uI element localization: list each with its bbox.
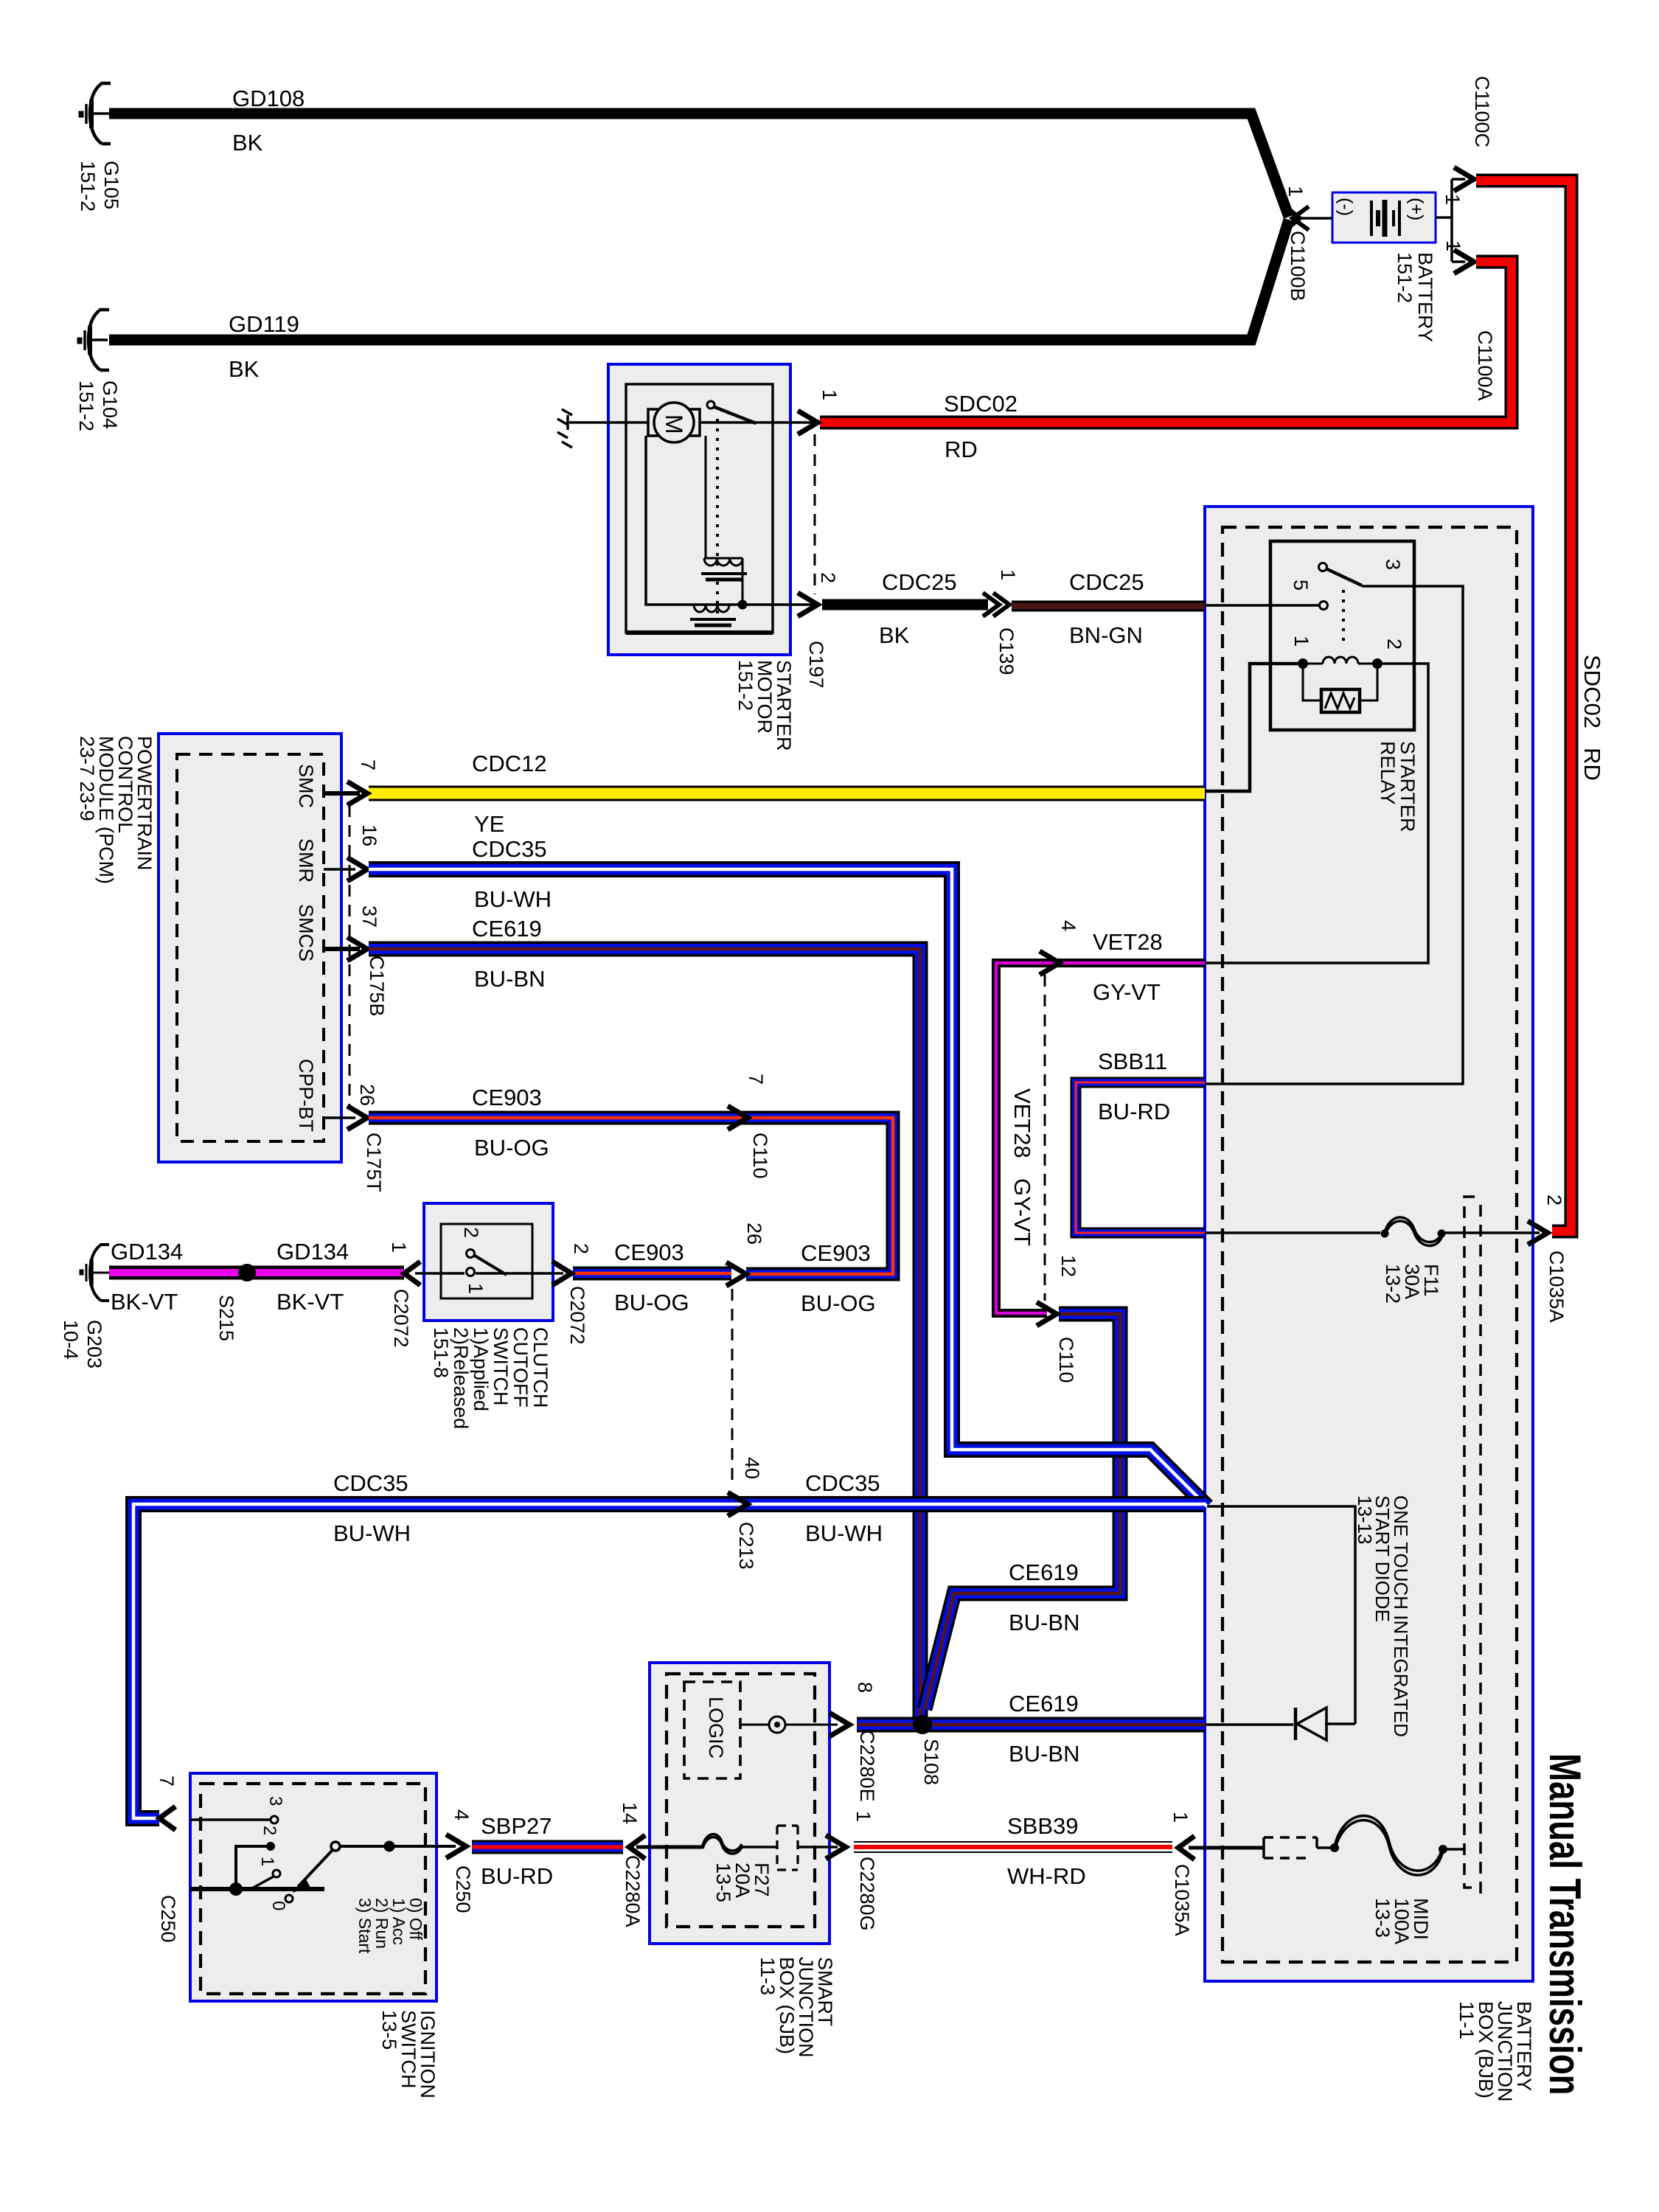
connector C110 dashed line <box>1044 975 1046 1301</box>
svg-text:C139: C139 <box>995 627 1018 675</box>
wire CDC25 BN-GN <box>1012 601 1205 612</box>
svg-text:BU-BN: BU-BN <box>474 966 545 992</box>
connector C1100B arrow <box>1284 205 1332 232</box>
connector C213 dashed line <box>731 1289 734 1488</box>
label CDC25 BN-GN <box>1069 569 1144 648</box>
starter relay pin 5 lead <box>1205 602 1328 610</box>
diode one touch integrated start <box>1295 1708 1326 1740</box>
svg-text:4: 4 <box>1057 920 1079 931</box>
svg-text:S215: S215 <box>215 1295 237 1341</box>
starter relay pin 3 lead to SBB11 <box>1205 586 1463 1084</box>
svg-text:C1035A: C1035A <box>1171 1864 1193 1936</box>
starter relay pin 2 lead to VET28 <box>1205 664 1428 963</box>
svg-text:Manual Transmission: Manual Transmission <box>1540 1753 1588 2096</box>
svg-text:SBB11: SBB11 <box>1098 1048 1167 1074</box>
clutch switch internals <box>415 1250 563 1276</box>
label CE903 BU-OG mid <box>801 1240 876 1316</box>
label C1100B <box>1284 186 1309 302</box>
label smart junction box <box>757 1957 836 2058</box>
svg-text:BK: BK <box>879 622 910 648</box>
connector C2072 pin 1 arrow <box>404 1262 420 1285</box>
svg-text:YE: YE <box>474 811 504 837</box>
svg-text:C250: C250 <box>157 1895 179 1943</box>
svg-text:C2280A: C2280A <box>622 1855 644 1927</box>
svg-text:CLUTCH: CLUTCH <box>529 1327 552 1408</box>
svg-text:BN-GN: BN-GN <box>1069 622 1143 648</box>
connector C197 pin 2 arrow <box>798 593 818 616</box>
svg-text:7: 7 <box>357 759 379 771</box>
wire CE903 BU-OG clutch switch to C213 <box>573 1267 731 1281</box>
svg-text:2)Released: 2)Released <box>450 1327 472 1429</box>
svg-text:2: 2 <box>260 1826 279 1835</box>
svg-text:S108: S108 <box>920 1739 942 1785</box>
starter solenoid switch <box>700 401 813 423</box>
svg-text:(-): (-) <box>1335 198 1356 216</box>
label C2072 pin 1 <box>388 1242 412 1348</box>
starter solenoid pull-in coil <box>701 436 747 609</box>
label battery junction box <box>1455 2001 1535 2102</box>
wire CE903 BU-OG from PCM pin 26 via C110 pin 7 to C213 pin 26 <box>369 1118 893 1274</box>
wire CDC25 BK <box>822 599 988 611</box>
connector C213 pin 40 arrow <box>728 1492 748 1516</box>
wire CE619 BU-BN from PCM pin 37 to splice S108 <box>369 949 920 1725</box>
svg-text:STARTER: STARTER <box>1397 741 1419 832</box>
connector C110 pin 7 arrow <box>728 1106 748 1130</box>
svg-text:16: 16 <box>358 824 380 846</box>
svg-text:G105: G105 <box>100 161 122 209</box>
label C2280A pin 14 <box>619 1802 644 1927</box>
wire SBB39 WH-RD <box>854 1841 1172 1853</box>
svg-text:151-2: 151-2 <box>75 380 97 431</box>
starter relay pin 1 lead from CDC12 <box>1205 664 1298 791</box>
label manual transmission <box>1540 1753 1588 2096</box>
svg-text:BU-OG: BU-OG <box>474 1135 549 1161</box>
svg-text:1: 1 <box>818 389 841 400</box>
label C1035A pin 2 <box>1543 1194 1568 1323</box>
svg-text:1: 1 <box>1442 240 1464 251</box>
starter solenoid dotted link <box>716 419 719 618</box>
svg-text:BU-WH: BU-WH <box>333 1520 411 1546</box>
connector C1100C arrow <box>1454 167 1474 191</box>
svg-text:BU-WH: BU-WH <box>474 886 552 912</box>
starter motor ground <box>557 409 648 448</box>
svg-text:40: 40 <box>741 1457 763 1479</box>
svg-text:BU-BN: BU-BN <box>1009 1741 1079 1767</box>
label CDC12 YE <box>472 751 547 837</box>
svg-text:3) Start: 3) Start <box>355 1898 375 1954</box>
svg-text:2: 2 <box>460 1227 482 1238</box>
starter relay switch <box>1319 563 1363 586</box>
starter relay dotted link <box>1342 590 1345 647</box>
connector C1035A pin 1 arrow <box>1178 1836 1194 1860</box>
svg-text:VET28: VET28 <box>1093 929 1163 955</box>
svg-text:GD134: GD134 <box>111 1239 183 1265</box>
label GD134 BK-VT left <box>111 1239 183 1315</box>
label C213 pin 26 <box>743 1222 765 1245</box>
starter relay box <box>1270 541 1414 730</box>
svg-text:13-3: 13-3 <box>1371 1898 1394 1938</box>
connector C110 pin 4 arrow <box>1040 951 1060 975</box>
label CE903 BU-OG at PCM <box>472 1085 549 1161</box>
svg-text:CE903: CE903 <box>472 1085 542 1110</box>
svg-text:SBP27: SBP27 <box>481 1813 552 1839</box>
svg-text:3: 3 <box>1382 559 1404 570</box>
starter relay coil <box>1298 657 1382 669</box>
svg-text:SWITCH: SWITCH <box>490 1327 512 1405</box>
wire GD134 BK-VT ground G203 to clutch switch <box>109 1266 404 1280</box>
label PCM pins <box>295 759 388 1192</box>
connector C175 dashed line <box>349 805 351 1106</box>
PCM pin SMCS arrow <box>324 937 367 961</box>
label SDC02 RD horizontal <box>944 391 1018 462</box>
svg-text:14: 14 <box>619 1802 641 1824</box>
svg-text:7: 7 <box>745 1074 767 1085</box>
svg-text:1: 1 <box>1284 186 1307 197</box>
svg-text:M: M <box>661 414 687 434</box>
svg-text:BK: BK <box>229 356 260 382</box>
ignition switch internals <box>190 1816 456 1902</box>
svg-text:SMR: SMR <box>295 838 317 883</box>
svg-text:C213: C213 <box>735 1522 757 1570</box>
svg-text:26: 26 <box>743 1222 765 1245</box>
wire SBP27 BU-RD <box>472 1840 623 1854</box>
wire SDC02 RD battery to BJB C1035A <box>1476 181 1571 1231</box>
wire CDC35 BU-WH from PCM pin 16 to BJB <box>369 869 1207 1506</box>
svg-text:LOGIC: LOGIC <box>705 1697 727 1759</box>
svg-text:C110: C110 <box>749 1133 771 1179</box>
wire CE619 BU-BN splice S108 to BJB diode <box>857 1717 1205 1733</box>
ground G104 <box>77 310 109 370</box>
svg-text:C2072: C2072 <box>566 1286 588 1345</box>
svg-text:151-8: 151-8 <box>430 1327 452 1378</box>
svg-text:1: 1 <box>997 569 1019 580</box>
svg-text:C110: C110 <box>1055 1337 1077 1383</box>
powertrain control module PCM box <box>159 734 341 1162</box>
label starter relay <box>1290 559 1419 832</box>
svg-text:BU-OG: BU-OG <box>801 1290 876 1316</box>
label C110 pin 4 12 <box>1055 920 1079 1383</box>
starter relay resistor <box>1303 664 1377 712</box>
wire CDC35 BU-WH ignition switch to BJB <box>133 1504 1205 1818</box>
label VET28 GY-VT horizontal <box>1093 929 1163 1005</box>
label GD108 BK <box>232 86 305 156</box>
svg-text:SMC: SMC <box>295 764 317 808</box>
label SBB11 BU-RD <box>1098 1048 1170 1124</box>
svg-text:151-2: 151-2 <box>77 161 99 212</box>
svg-text:CDC12: CDC12 <box>472 751 547 776</box>
clutch cutoff switch box <box>424 1203 553 1321</box>
svg-text:GD108: GD108 <box>232 86 305 111</box>
smart junction box SJB <box>650 1663 829 1944</box>
label ignition switch positions <box>355 1898 425 1954</box>
SJB logic output <box>740 1717 838 1733</box>
label CE903 BU-OG clutch <box>614 1239 689 1315</box>
svg-text:GD119: GD119 <box>229 311 299 337</box>
label one touch integrated start diode <box>1354 1495 1412 1737</box>
svg-text:1: 1 <box>1169 1812 1192 1823</box>
svg-text:C1035A: C1035A <box>1545 1251 1568 1323</box>
svg-text:GY-VT: GY-VT <box>1093 979 1161 1005</box>
BJB one touch start diode box <box>1205 1506 1355 1725</box>
label SBP27 BU-RD <box>481 1813 553 1889</box>
splice S215 <box>238 1264 256 1281</box>
wire GD108 BK <box>109 114 1289 217</box>
label CDC35 BU-WH left <box>333 1470 411 1546</box>
svg-text:10-4: 10-4 <box>60 1320 82 1360</box>
svg-text:23-7 23-9: 23-7 23-9 <box>76 736 98 821</box>
label CE619 BU-BN at PCM <box>472 916 545 992</box>
starter motor armature M <box>648 403 700 442</box>
svg-text:BK-VT: BK-VT <box>276 1289 344 1315</box>
label CDC25 BK <box>879 569 957 648</box>
label GD119 BK <box>229 311 299 382</box>
svg-text:CE903: CE903 <box>614 1239 684 1265</box>
svg-text:CE619: CE619 <box>472 916 542 942</box>
svg-text:BU-RD: BU-RD <box>1098 1099 1170 1124</box>
svg-text:RD: RD <box>945 437 978 462</box>
svg-text:CUTOFF: CUTOFF <box>509 1327 532 1408</box>
svg-text:CDC25: CDC25 <box>882 569 957 595</box>
label S108 <box>920 1739 942 1785</box>
svg-text:12: 12 <box>1057 1255 1079 1277</box>
label G105 <box>77 161 122 212</box>
svg-text:11-3: 11-3 <box>757 1957 779 1995</box>
svg-text:4: 4 <box>451 1809 473 1820</box>
svg-text:VET28: VET28 <box>1009 1088 1035 1158</box>
label VET28 GY-VT vertical <box>1009 1088 1035 1246</box>
BJB fuse F11 30A <box>1205 1217 1540 1246</box>
svg-text:G104: G104 <box>99 380 121 429</box>
ground G203 <box>80 1245 109 1301</box>
svg-text:BK: BK <box>232 130 263 156</box>
svg-text:GD134: GD134 <box>276 1239 349 1265</box>
svg-text:BU-RD: BU-RD <box>481 1863 553 1889</box>
svg-text:7: 7 <box>156 1775 178 1787</box>
connector C250 pin 4 arrow <box>446 1834 466 1858</box>
SJB logic box <box>684 1682 740 1778</box>
svg-text:C1100A: C1100A <box>1474 330 1496 401</box>
svg-text:2: 2 <box>1383 639 1405 650</box>
svg-text:C1100C: C1100C <box>1471 76 1493 147</box>
svg-text:1: 1 <box>388 1242 410 1253</box>
label F27 20A <box>712 1863 773 1902</box>
label F11 30A <box>1382 1264 1442 1304</box>
svg-text:2: 2 <box>1543 1194 1565 1206</box>
PCM pin SMC arrow <box>324 782 367 805</box>
svg-text:G203: G203 <box>83 1320 105 1368</box>
battery junction box BJB <box>1205 507 1533 1981</box>
svg-text:C2280E: C2280E <box>856 1730 878 1802</box>
svg-text:C2072: C2072 <box>390 1289 412 1348</box>
connector C197 dashed line <box>814 434 816 594</box>
label C2280E pin 8 <box>854 1682 878 1802</box>
label CDC35 BU-WH right <box>805 1470 883 1546</box>
label C1035A pin 1 <box>1169 1812 1193 1936</box>
svg-text:1)Applied: 1)Applied <box>470 1327 492 1411</box>
connector C110 pin 12 arrow <box>1037 1302 1057 1326</box>
svg-text:(+): (+) <box>1406 198 1427 220</box>
connector C1035A pin 2 arrow <box>1528 1221 1548 1245</box>
svg-text:CDC35: CDC35 <box>805 1470 880 1496</box>
svg-text:SDC02: SDC02 <box>1579 655 1605 728</box>
label PCM title <box>76 736 156 884</box>
svg-text:26: 26 <box>356 1084 378 1106</box>
battery box <box>1332 192 1436 243</box>
label SDC02 RD vertical <box>1579 655 1605 781</box>
svg-text:BU-BN: BU-BN <box>1009 1610 1079 1635</box>
svg-text:CDC35: CDC35 <box>472 836 547 862</box>
connector C2072 pin 2 arrow <box>552 1262 571 1285</box>
label battery <box>1394 76 1496 401</box>
label ignition switch pins <box>257 1796 288 1910</box>
connector C250 pin 7 arrow <box>159 1806 175 1830</box>
wire VET28 GY-VT relay to C110 pin 12 <box>996 963 1205 1313</box>
label CDC35 BU-WH at PCM <box>472 836 552 912</box>
label LOGIC <box>705 1697 727 1759</box>
svg-text:13-5: 13-5 <box>378 2010 400 2050</box>
svg-text:BU-WH: BU-WH <box>805 1520 883 1546</box>
label G203 <box>60 1320 105 1368</box>
label C213 pin 40 <box>735 1457 763 1570</box>
wire CDC12 YE <box>369 786 1205 801</box>
connector C2280G pin 1 arrow <box>826 1835 846 1859</box>
svg-text:151-2: 151-2 <box>1394 252 1416 303</box>
wire SBB11 BU-RD <box>1076 1082 1205 1233</box>
svg-text:CPP-BT: CPP-BT <box>295 1059 317 1132</box>
label SBB39 WH-RD <box>1007 1813 1086 1889</box>
svg-text:GY-VT: GY-VT <box>1009 1178 1035 1246</box>
BJB fuse MIDI 100A <box>1189 1816 1464 1875</box>
svg-text:3: 3 <box>265 1796 285 1806</box>
connector C197 pin 1 arrow <box>798 411 818 434</box>
svg-text:CE619: CE619 <box>1009 1691 1079 1717</box>
svg-text:BATTERY: BATTERY <box>1414 252 1436 342</box>
svg-text:2: 2 <box>817 572 839 583</box>
svg-text:CE619: CE619 <box>1009 1559 1079 1585</box>
starter motor box <box>608 364 790 655</box>
svg-text:5: 5 <box>1290 580 1312 591</box>
svg-text:CE903: CE903 <box>801 1240 871 1266</box>
svg-text:SBB39: SBB39 <box>1007 1813 1079 1839</box>
label clutch cutoff switch <box>430 1327 552 1429</box>
splice S108 <box>913 1715 932 1734</box>
connector C2280E pin 8 arrow <box>829 1713 849 1736</box>
label CE619 BU-BN S108 <box>1009 1691 1079 1767</box>
label G104 <box>75 380 121 431</box>
svg-text:CDC25: CDC25 <box>1069 569 1144 595</box>
svg-text:1: 1 <box>257 1857 277 1866</box>
ground G105 <box>79 83 111 144</box>
PCM pin CPP-BT arrow <box>324 1106 367 1130</box>
svg-text:WH-RD: WH-RD <box>1007 1863 1086 1889</box>
label C250 pin 7 <box>156 1775 179 1943</box>
svg-text:1: 1 <box>1290 636 1312 647</box>
label C2072 pin 2 <box>566 1243 592 1345</box>
svg-text:C1100B: C1100B <box>1287 231 1309 302</box>
svg-text:SDC02: SDC02 <box>944 391 1018 417</box>
PCM pin SMR arrow <box>324 858 367 881</box>
svg-text:1: 1 <box>465 1283 487 1294</box>
svg-text:1: 1 <box>852 1811 874 1822</box>
starter solenoid hold-in coil <box>646 436 813 625</box>
label C250 pin 4 <box>451 1809 474 1913</box>
connector C1100A arrow <box>1454 250 1474 274</box>
svg-text:CDC35: CDC35 <box>333 1470 408 1496</box>
svg-text:0: 0 <box>268 1901 288 1910</box>
label MIDI 100A <box>1371 1898 1432 1944</box>
svg-text:13-13: 13-13 <box>1354 1495 1376 1545</box>
svg-text:BU-OG: BU-OG <box>614 1290 689 1315</box>
ignition switch box <box>190 1773 437 2001</box>
svg-text:13-5: 13-5 <box>712 1863 734 1902</box>
connector C2280A pin 14 arrow <box>629 1835 645 1859</box>
label C110 pin 7 <box>745 1074 771 1179</box>
SJB fuse F27 20A <box>636 1826 838 1870</box>
svg-text:C197: C197 <box>805 641 827 689</box>
connector C139 arrow <box>983 593 1009 616</box>
connector C213 pin 26 arrow <box>726 1262 746 1286</box>
svg-text:37: 37 <box>358 905 380 928</box>
label clutch switch pins <box>460 1227 487 1294</box>
svg-text:11-1: 11-1 <box>1455 2001 1478 2039</box>
svg-text:SMCS: SMCS <box>295 904 317 961</box>
svg-text:8: 8 <box>854 1682 876 1693</box>
svg-text:BK-VT: BK-VT <box>111 1289 178 1315</box>
svg-text:RELAY: RELAY <box>1377 741 1399 805</box>
svg-text:C175B: C175B <box>366 956 388 1017</box>
svg-text:RD: RD <box>1579 748 1605 781</box>
svg-text:2: 2 <box>570 1243 592 1254</box>
svg-text:151-2: 151-2 <box>734 660 757 711</box>
label ignition switch <box>378 2010 439 2098</box>
svg-text:13-2: 13-2 <box>1382 1264 1404 1304</box>
svg-text:C2280G: C2280G <box>856 1857 878 1931</box>
label GD134 BK-VT right <box>276 1239 349 1315</box>
label CE619 BU-BN zigzag <box>1009 1559 1079 1635</box>
wire GD119 BK <box>109 220 1289 340</box>
label S215 <box>215 1295 237 1341</box>
wire SDC02 RD battery to starter motor <box>820 262 1512 422</box>
label starter motor <box>734 389 841 751</box>
svg-text:C175T: C175T <box>363 1133 385 1192</box>
label C2280G pin 1 <box>852 1811 878 1931</box>
connector C1035A dashed lines <box>1464 1197 1481 1896</box>
svg-text:1: 1 <box>1441 194 1464 205</box>
battery (-) plates (+) <box>0 0 1 1</box>
svg-text:C250: C250 <box>452 1865 474 1913</box>
wire CE619 BU-BN from C110 pin 12 to splice S108 <box>925 1314 1120 1709</box>
label C139 <box>995 569 1019 675</box>
